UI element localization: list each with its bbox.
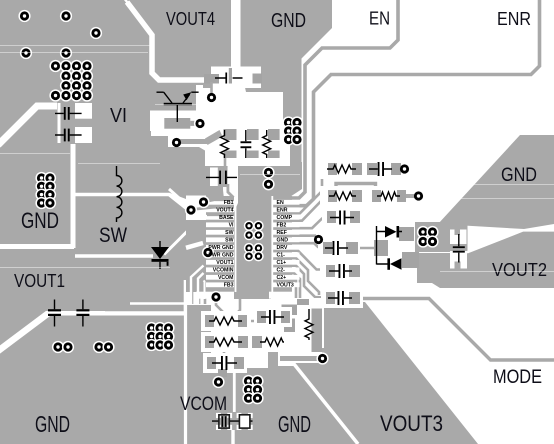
wire isolation: VOUT3/GND diagonal: [294, 364, 358, 444]
pad R3 left: [328, 163, 337, 175]
diode D3 body: [390, 258, 402, 270]
pad C1/C2 center slab: [61, 103, 76, 143]
resistor R4b zigzag: [377, 192, 400, 200]
wire VOUT3 pin trace: [292, 281, 296, 302]
pad R4 left: [328, 190, 337, 202]
courtyard: R3 C6 row1 right: [320, 159, 406, 179]
wire slab bottom to R5: [234, 299, 240, 316]
courtyard: VOUT2 cap C13 slot bottom: [450, 251, 467, 269]
capacitor C5 plates: [219, 171, 221, 185]
pad R4 right: [352, 190, 362, 202]
wire isolation: GND-BC/VCOM channel: [233, 368, 234, 444]
capacitor C13 vout2 leads: [458, 234, 460, 263]
wire GND pin stubp: [292, 234, 316, 237]
wire isolation: left vertical channel: [71, 144, 76, 248]
via single E: [60, 47, 72, 59]
capacitor C7 leads: [329, 270, 352, 272]
via cluster VI r4: [49, 89, 61, 101]
courtyard: H footprint L2: [271, 298, 324, 348]
via cluster VI r2: [60, 70, 72, 82]
pad D2 cathode: [399, 227, 414, 241]
via node FB1: [197, 196, 209, 208]
transistor Q1 arrow: [183, 92, 191, 100]
pad R7 left: [252, 336, 262, 348]
svg-text:VOUT4: VOUT4: [216, 208, 233, 214]
scan hairline 5: [78, 163, 160, 165]
pad R3 right: [352, 163, 362, 175]
pad D3 anode: [402, 252, 419, 268]
pad R1 bottom: [224, 151, 237, 159]
pad L2 a: [282, 305, 298, 316]
pad C9 left: [323, 242, 332, 254]
pads diode pair D2 D3: [374, 240, 388, 256]
diode D2 body: [385, 226, 397, 238]
pad Q1 base: [164, 118, 190, 129]
via single C: [90, 27, 102, 39]
svg-text:MODE: MODE: [493, 367, 542, 388]
via single D: [20, 47, 32, 59]
wire isolation: VCOMIN fan channel: [198, 273, 204, 304]
pad R6 left: [205, 336, 214, 348]
pad C11 left: [257, 311, 266, 323]
transistor Q1 collector diagonal: [164, 92, 172, 103]
wire C1+ trace: [292, 258, 319, 295]
pad C6 right: [391, 163, 401, 175]
wire R5 right pad to C11: [247, 317, 260, 321]
capacitor C15 lead: [82, 300, 84, 327]
IC pin block bottom gap: [196, 292, 234, 299]
pad R1 top: [224, 129, 237, 140]
pad C13 tab bottom: [455, 262, 461, 269]
copper pour VOUT1 region: [0, 248, 187, 350]
capacitor C4 leads: [245, 130, 247, 158]
svg-text:GND: GND: [21, 208, 59, 233]
wire via stub DRV cap: [317, 239, 320, 244]
wire EN trace from top: [292, 0, 398, 198]
wire elbow trace COMP network: [336, 184, 376, 192]
resistor R4 zigzag: [329, 192, 356, 200]
courtyard: R6: [201, 332, 251, 352]
via node C6: [400, 164, 409, 173]
pad R4b right: [397, 190, 406, 202]
via single B: [60, 10, 72, 22]
via slab a: [262, 166, 274, 178]
via pair VOUT1 b: [93, 341, 105, 353]
copper pour VCOM region: [187, 305, 211, 444]
capacitor C12 leads: [212, 362, 237, 364]
capacitor C6 plates: [378, 162, 380, 176]
wire isolation: PWRGND notch: [186, 243, 203, 248]
pad C8 right: [350, 211, 360, 223]
courtyard: C10 row6: [321, 288, 363, 308]
svg-text:VI: VI: [229, 223, 234, 229]
svg-text:C2-: C2-: [277, 268, 286, 274]
svg-text:VOUT4: VOUT4: [166, 9, 215, 29]
capacitor C1 symbol: [55, 112, 82, 114]
wire FB1 stub to via: [204, 200, 235, 202]
svg-text:VCOMIN: VCOMIN: [213, 268, 234, 274]
via cluster VI r3: [60, 80, 72, 92]
IC right pin label strips: [273, 200, 300, 205]
svg-text:GND: GND: [35, 411, 70, 437]
courtyard: capacitor C5 slot left: [210, 168, 218, 187]
svg-text:FB1: FB1: [224, 200, 234, 206]
wire FB1 via link: [204, 199, 215, 202]
copper pour GND bottom-center: [235, 348, 359, 444]
connector K1 plates: [222, 416, 224, 427]
wire C12 to R6: [220, 348, 224, 355]
svg-text:VOUT1: VOUT1: [14, 271, 65, 291]
wire trace via B link: [194, 122, 200, 125]
resistor R5 zigzag: [209, 317, 242, 325]
svg-text:VI: VI: [110, 104, 127, 127]
wire FB1 cap to pin: [228, 184, 234, 198]
scan hairline 1: [0, 45, 150, 47]
wire arrow head to R1 top pad: [205, 130, 223, 145]
IC left pin label strips: [206, 200, 234, 205]
connector K1 right box: [239, 415, 250, 428]
svg-text:BASE: BASE: [219, 215, 234, 221]
via cluster GND-tail 2x3: [282, 116, 294, 128]
via PWRGND: [202, 246, 214, 258]
scan hairline 6: [440, 184, 554, 186]
capacitor C9 plates: [333, 241, 335, 255]
wire VCOM pin trace: [199, 278, 214, 305]
svg-text:GND: GND: [278, 411, 311, 437]
pad C4 bottom: [247, 151, 259, 159]
capacitor C3 symbol: [215, 77, 243, 79]
pad C13 tab top: [455, 230, 461, 236]
capacitor C15 plates: [76, 309, 89, 311]
diode D3 bar: [387, 258, 390, 270]
pad L2 c: [281, 334, 293, 346]
capacitor C4 plates: [241, 141, 252, 143]
resistor R8 zigzag vertical: [305, 309, 313, 340]
copper pour VI top-left plane: [0, 0, 224, 257]
capacitor C7 plates: [339, 264, 341, 278]
capacitor C14 plates: [48, 309, 61, 311]
wire isolation: SW/VOUT1 boundary: [75, 254, 153, 258]
pad C10 right: [349, 292, 360, 304]
diode D2 bar: [397, 226, 400, 238]
pad C5 center: [218, 166, 228, 187]
scan hairline 8: [0, 267, 170, 269]
wire C1- trace: [292, 251, 326, 270]
capacitor C14 lead: [54, 300, 56, 327]
svg-text:ENR: ENR: [497, 9, 531, 29]
svg-text:DRV: DRV: [277, 245, 288, 251]
svg-text:GND: GND: [277, 238, 289, 244]
wire isolation: VOUT4/VI diagonal channel: [127, 2, 207, 80]
pad L2 e: [297, 299, 309, 305]
capacitor C2 symbol: [55, 134, 82, 136]
wire C2- trace: [292, 266, 324, 298]
wire VOUT1 pin trace: [176, 263, 214, 277]
pad C3 right tab: [253, 74, 263, 84]
resistor R1 zigzag: [221, 130, 229, 158]
pad Q1 nub: [190, 121, 196, 126]
courtyard: R1 C4 R2 row: [205, 120, 290, 166]
wire COMP trace to R3: [292, 170, 328, 213]
wire isolation: VOUT1 fan channel: [191, 266, 204, 305]
via pair VOUT1 a: [52, 341, 64, 353]
connector K1 left box: [219, 415, 229, 428]
wire isolation: GND strip diagonal band: [0, 106, 57, 145]
capacitor C1 plates: [64, 107, 66, 120]
courtyard: C12: [203, 353, 247, 373]
pad R5 left: [205, 315, 214, 327]
via node VOUT4: [185, 204, 197, 216]
scan hairline 9: [240, 174, 300, 176]
pad C8 left: [327, 211, 336, 223]
scan hairline 7: [430, 198, 554, 200]
wire R3 lead left: [327, 168, 334, 170]
wire C9 to diode junction: [356, 247, 378, 250]
svg-text:VOUT1: VOUT1: [216, 260, 233, 266]
copper pour GND top-center: [241, 0, 333, 92]
scan hairline 10: [440, 271, 554, 273]
courtyard: capacitor C3 (VOUT4): [211, 67, 261, 89]
via cluster GND-BL 3x3: [145, 322, 157, 334]
courtyard: VOUT2 cap C13 slot top: [450, 230, 467, 245]
wire isolation: VOUT1 arm right channel: [184, 280, 187, 313]
via thermal IC: [244, 221, 254, 231]
wire isolation: GND/VOUT1 boundary: [0, 244, 74, 249]
pad R2 top: [268, 129, 280, 140]
resistor R7 zigzag: [260, 338, 284, 346]
pad K1 white corners: [216, 413, 253, 430]
wire C2+ trace: [292, 273, 300, 302]
copper pour IC thermal slab: [234, 162, 302, 299]
diode D1 hook: [167, 262, 169, 266]
wire FB2 trace to R4: [292, 197, 330, 221]
svg-text:VCOM: VCOM: [218, 275, 234, 281]
copper pour SW region: [75, 195, 187, 257]
svg-text:COMP: COMP: [277, 215, 293, 221]
svg-text:PWR GND: PWR GND: [208, 253, 233, 259]
scan hairline 3: [155, 104, 232, 106]
transistor Q1 base bar: [164, 103, 192, 105]
pad Q1 collector block: [150, 84, 196, 111]
pad C6 left: [367, 163, 377, 175]
connector K1 leads: [212, 420, 253, 422]
svg-text:VOUT2: VOUT2: [492, 260, 547, 280]
wire VOUT4 via link diagonal: [192, 203, 205, 210]
capacitor C9 leads: [325, 247, 348, 249]
svg-text:GND: GND: [271, 9, 306, 32]
pad C7 right: [349, 265, 360, 277]
pad R6 right: [238, 336, 248, 348]
copper pour GND right wedge: [438, 135, 554, 229]
courtyard: R5: [201, 311, 251, 331]
capacitor C11 leads: [261, 316, 284, 318]
courtyard: C11: [254, 307, 292, 327]
pad C3 center plate: [229, 68, 232, 84]
copper pour GND left strip: [0, 110, 71, 244]
via cluster GND-left 2x4: [35, 172, 47, 184]
capacitor C3 plate: [225, 73, 227, 84]
pad C1/C2 arm to VI: [75, 119, 92, 127]
wire isolation: FB1 pickup diagonal: [169, 189, 189, 207]
copper pour IC right pin block: [269, 196, 292, 292]
inductor L1 coil: [117, 166, 122, 222]
wire trace via A to cap C3 area: [210, 82, 213, 98]
via node C3: [207, 93, 216, 102]
courtyard: C7 row5: [320, 261, 362, 281]
via cluster VOUT2 2x2: [417, 226, 429, 238]
copper pour VCOM right lobe: [205, 368, 266, 444]
capacitor C13 plates: [453, 246, 465, 248]
svg-text:FB2: FB2: [277, 223, 287, 229]
capacitor C11 plates: [269, 310, 271, 324]
pad L2 b: [284, 319, 295, 335]
wire VCOMIN pin trace: [192, 270, 214, 304]
wire arrow trace via C to R1: [180, 139, 207, 144]
copper pour VOUT4 region: [127, 0, 231, 88]
via slab bottom: [210, 291, 222, 303]
transistor Q1 collector rail: [157, 91, 164, 93]
via node R4b: [414, 191, 423, 200]
pad C12 stub: [218, 369, 227, 377]
courtyard: transistor Q1 white surround: [150, 85, 203, 131]
wire VCOM bottom link: [230, 368, 233, 414]
svg-text:GND: GND: [501, 165, 537, 186]
resistor R6 zigzag: [209, 338, 242, 346]
resistor R2 zigzag: [263, 130, 271, 158]
svg-text:EN: EN: [277, 200, 284, 206]
pad C4 top: [247, 129, 259, 140]
svg-text:C2+: C2+: [277, 275, 287, 281]
wire REF trace to C8: [292, 218, 330, 228]
via cluster VCOM 2x3: [242, 375, 254, 387]
svg-text:SW: SW: [225, 238, 233, 244]
copper pour VOUT2 left block: [415, 222, 468, 252]
courtyard: capacitor C5 slot right: [228, 168, 236, 187]
capacitor C8 plates: [339, 211, 341, 225]
wire via bottom slab trace: [216, 297, 225, 314]
copper pour VOUT2 band: [417, 231, 554, 288]
copper pour IC left pin block: [186, 196, 234, 292]
wire isolation: slab right gap: [271, 196, 273, 292]
svg-text:C1+: C1+: [277, 260, 287, 266]
wire isolation: VCOM left channel: [184, 304, 187, 444]
via node DRV: [314, 235, 323, 244]
capacitor C8 leads: [330, 217, 354, 219]
via GND-BC trace: [316, 352, 328, 364]
copper pour VOUT3 triangle: [295, 302, 478, 444]
svg-text:REF: REF: [277, 230, 287, 236]
wire VOUT4 stub to via: [192, 207, 235, 209]
svg-text:ENR: ENR: [277, 208, 288, 214]
wire isolation: VCOM top channel: [130, 302, 186, 305]
pad C12 right: [234, 357, 244, 369]
diode D1 body: [151, 247, 169, 259]
pad R5 right: [238, 315, 247, 327]
svg-text:EN: EN: [369, 9, 390, 29]
pad C7 left: [326, 265, 335, 277]
wire R6 right to R7: [248, 341, 258, 344]
wire ENR trace from top: [292, 0, 540, 206]
capacitor C10 leads: [328, 297, 352, 299]
wire isolation: VOUT1 bottom strip: [46, 311, 186, 315]
courtyard: R4 R4b row2: [320, 186, 380, 206]
wire isolation: VCOM fan channel: [204, 281, 205, 300]
wire isolation: VOUT1/GND chevron: [0, 314, 48, 352]
via slab b: [262, 178, 274, 190]
scan hairline 4: [0, 153, 70, 155]
wire H footprint trace: [280, 356, 320, 361]
transistor Q1 emitter rail: [191, 91, 198, 93]
svg-text:SW: SW: [99, 223, 128, 247]
svg-text:VCOM: VCOM: [180, 394, 227, 415]
capacitor C12 plates: [221, 356, 223, 370]
pad R2 bottom: [268, 151, 280, 159]
courtyard: input caps C1/C2: [58, 103, 93, 143]
wire isolation: slab left gap: [235, 196, 237, 292]
svg-text:PWR GND: PWR GND: [208, 245, 233, 251]
diode pair junction wire: [377, 226, 403, 265]
wire isolation: SW right channel: [164, 232, 233, 255]
diode D1 leads: [159, 241, 161, 269]
pad C12 left: [207, 357, 216, 369]
transistor Q1 emitter diagonal: [183, 95, 190, 104]
courtyard: C9 row4: [318, 238, 360, 258]
courtyard: R7: [249, 332, 295, 352]
pad C10 left: [326, 292, 335, 304]
wire BASE stub: [207, 213, 234, 216]
wire isolation: VOUT2 band top: [467, 230, 554, 252]
diode D1 bar: [152, 259, 169, 262]
pad C11 right: [281, 311, 290, 323]
svg-text:VOUT3: VOUT3: [380, 411, 443, 436]
wire R4b to via: [404, 194, 417, 198]
pad C3 left tab: [204, 74, 219, 84]
transistor Q1 base lead: [176, 105, 178, 122]
scan hairline 2: [0, 52, 148, 54]
via node Q1: [194, 117, 206, 129]
svg-text:FB3: FB3: [224, 283, 234, 289]
via node R1: [172, 138, 181, 147]
svg-text:VOUT3: VOUT3: [277, 283, 294, 289]
via cluster VI r1: [49, 60, 61, 72]
copper pour GND tail to IC: [283, 90, 302, 164]
pad C9 right: [346, 242, 358, 254]
pad R4b left: [372, 190, 381, 202]
pad L2 d: [312, 309, 323, 353]
wire DRV trace to C9: [292, 243, 324, 247]
wire FB3 pin trace: [205, 285, 214, 304]
wire C10 long trace to MODE: [357, 299, 554, 361]
capacitor C6 leads: [369, 168, 392, 170]
via single A: [18, 10, 30, 22]
capacitor C2 plates: [64, 129, 66, 142]
capacitor C10 plates: [338, 291, 340, 305]
via VCOM cap: [212, 376, 224, 388]
copper pour GND bottom-left: [0, 316, 184, 444]
svg-text:SW: SW: [225, 230, 233, 236]
wire R1 bottom to C5: [224, 158, 227, 170]
wire isolation: VI/SW boundary: [75, 195, 186, 209]
svg-text:C1-: C1-: [277, 253, 286, 259]
resistor R3 zigzag: [327, 165, 356, 173]
courtyard: C8 row3: [322, 207, 364, 227]
capacitor C5 symbol leads: [206, 176, 237, 178]
